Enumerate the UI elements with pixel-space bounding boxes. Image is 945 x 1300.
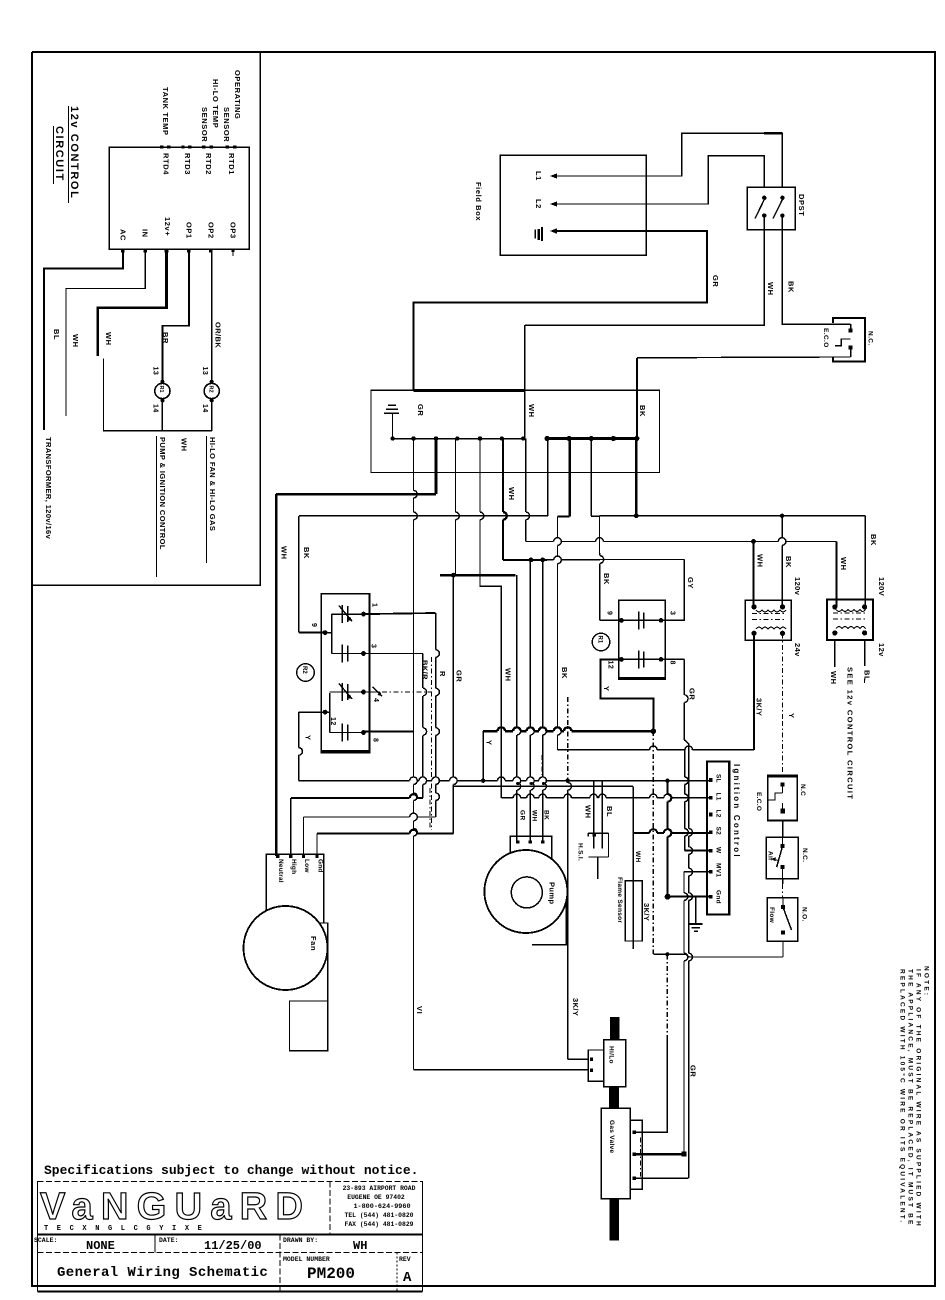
svg-text:OP2: OP2: [207, 222, 216, 239]
R1 contact 2: [621, 658, 661, 660]
svg-text:R: R: [438, 671, 447, 677]
ECO top contact: [833, 323, 851, 325]
contact 1 to pin 1: [332, 613, 364, 615]
svg-text:L2: L2: [534, 199, 543, 209]
Hi/Lo connector: [588, 1050, 603, 1081]
ground terminal in field box: [534, 230, 536, 239]
wire ECO to BK riser: [637, 356, 833, 359]
svg-text:Pump: Pump: [548, 882, 557, 904]
svg-text:8: 8: [372, 738, 379, 742]
svg-text:OR/BK: OR/BK: [214, 322, 223, 348]
Field Box enclosure: [500, 155, 646, 255]
svg-text:WH: WH: [71, 334, 80, 348]
controller IC box U1: [109, 147, 249, 249]
12v control circuit sub-box: [32, 52, 260, 585]
svg-text:Field Box: Field Box: [474, 182, 483, 221]
H.S.I. igniter: [588, 832, 608, 834]
Ignition Control box: [707, 762, 729, 915]
wire T1 24v WH to ignition W: [753, 633, 755, 750]
wire L1 into pin: [501, 797, 513, 799]
relay coil R2: [204, 383, 219, 398]
pump inner circle: [511, 877, 542, 908]
svg-text:VaNGUaRD: VaNGUaRD: [40, 1186, 303, 1228]
svg-text:BK: BK: [543, 810, 550, 820]
R1 contact 1: [621, 619, 661, 621]
svg-text:L2: L2: [715, 810, 722, 818]
svg-text:NOTE:: NOTE:: [923, 966, 930, 997]
svg-text:WH: WH: [584, 805, 593, 819]
svg-text:BK: BK: [869, 534, 878, 546]
svg-text:GY: GY: [686, 577, 695, 589]
svg-text:12v CONTROL: 12v CONTROL: [68, 106, 80, 199]
wire R1 coil to return: [161, 400, 163, 430]
pump pin wires: [529, 560, 531, 727]
contact 3 with spark output 4: [330, 691, 364, 693]
wire Gnd thick: [666, 781, 668, 794]
svg-text:14: 14: [201, 404, 208, 413]
svg-text:GR: GR: [689, 1065, 698, 1077]
R2 contact block box: [321, 594, 369, 753]
wire L1 to DPST: [556, 133, 782, 176]
svg-text:Y: Y: [485, 740, 494, 746]
svg-text:IF ANY OF THE ORIGINAL WIRE AS: IF ANY OF THE ORIGINAL WIRE AS SUPPLIED …: [915, 969, 922, 1228]
svg-text:RTD1: RTD1: [227, 153, 236, 175]
svg-text:GR: GR: [711, 275, 720, 287]
svg-text:9: 9: [310, 623, 317, 627]
wire Y bus thick: [483, 730, 497, 732]
wire 12v+ WH thick stub: [98, 249, 167, 356]
wire Air to Flow: [782, 879, 784, 884]
svg-text:WH: WH: [839, 557, 848, 571]
Flow switch: [767, 898, 798, 941]
svg-text:E.C.O: E.C.O: [755, 792, 762, 811]
gas valve connector: [630, 1120, 642, 1189]
wire fan low: [303, 817, 305, 856]
junction box: [371, 390, 660, 472]
svg-text:12v: 12v: [877, 643, 886, 657]
svg-text:Neutral: Neutral: [277, 859, 284, 883]
ground symbol below Gnd wire: [695, 897, 697, 924]
svg-text:RTD2: RTD2: [204, 153, 213, 175]
svg-text:N.C.: N.C.: [867, 331, 874, 346]
svg-text:Gnd: Gnd: [715, 890, 722, 904]
wire common 12 to Y: [299, 711, 325, 713]
svg-text:RTD4: RTD4: [162, 153, 171, 175]
svg-text:TRANSFORMER, 120v/16v: TRANSFORMER, 120v/16v: [44, 437, 53, 540]
wire pin12 down: [599, 659, 601, 680]
svg-text:WH: WH: [180, 438, 189, 452]
transformer T1 24v: [745, 600, 791, 640]
svg-text:OPERATING: OPERATING: [233, 70, 242, 119]
svg-text:L1: L1: [534, 171, 543, 181]
dashed wire near fan: [429, 788, 431, 830]
svg-text:SENSOR: SENSOR: [222, 107, 231, 142]
svg-text:REV: REV: [399, 1256, 411, 1263]
svg-text:AC: AC: [119, 229, 128, 241]
svg-text:Air: Air: [767, 851, 774, 861]
svg-text:R2: R2: [207, 386, 213, 393]
wire ground GR to junction box: [414, 231, 708, 390]
wire Y SL line to ignition: [299, 780, 410, 782]
svg-text:SEE 12v CONTROL CIRCUIT: SEE 12v CONTROL CIRCUIT: [846, 667, 855, 800]
wire BK riser to transformers: [590, 439, 592, 517]
wire Flow return to 3K/Y: [782, 941, 784, 957]
svg-text:T E C X N G L C G Y I X E: T E C X N G L C G Y I X E: [44, 1225, 204, 1233]
svg-text:8: 8: [669, 661, 676, 665]
wire BK into contact 9: [599, 553, 601, 556]
svg-text:WH: WH: [353, 1239, 367, 1253]
svg-text:WH: WH: [507, 487, 516, 501]
svg-text:Flame Sensor: Flame Sensor: [616, 877, 623, 923]
svg-text:24v: 24v: [793, 643, 802, 657]
wire ECO2 to Air: [782, 821, 784, 837]
svg-text:Fan: Fan: [309, 936, 318, 951]
wire fan high: [290, 798, 292, 856]
wire S2 from flame sensor: [634, 832, 650, 834]
svg-text:CIRCUIT: CIRCUIT: [53, 126, 65, 182]
wire WH thick to pump feeds: [502, 439, 504, 513]
svg-text:FAX (544) 481-0829: FAX (544) 481-0829: [344, 1221, 413, 1228]
svg-text:VI: VI: [415, 1006, 424, 1014]
wire 3K/Y to Hi/Lo: [567, 697, 569, 781]
svg-text:OP1: OP1: [185, 222, 194, 239]
svg-text:WH: WH: [527, 404, 536, 418]
DPST pole 2: [780, 196, 784, 200]
svg-text:BK: BK: [560, 667, 569, 679]
wire R down to fan Low: [435, 613, 437, 650]
svg-text:R1: R1: [597, 636, 603, 644]
wire WH feed line: [525, 439, 527, 513]
svg-text:WH: WH: [531, 810, 538, 822]
svg-text:DATE:: DATE:: [159, 1237, 179, 1244]
svg-text:14: 14: [152, 404, 159, 413]
svg-text:Y: Y: [602, 686, 611, 692]
svg-text:E.C.O: E.C.O: [822, 328, 829, 348]
svg-text:Y: Y: [304, 735, 313, 741]
svg-text:SL: SL: [715, 774, 722, 783]
fan motor circle: [244, 906, 328, 990]
svg-text:MV1: MV1: [715, 863, 722, 877]
svg-text:DRAWN BY:: DRAWN BY:: [283, 1237, 318, 1244]
svg-text:N.C: N.C: [799, 784, 806, 796]
svg-text:3: 3: [370, 644, 377, 648]
wire HSI BL from SL line: [601, 781, 603, 849]
wire GR riser: [455, 439, 457, 513]
DPST switch S1: [747, 187, 795, 229]
svg-text:R2: R2: [301, 666, 307, 674]
svg-text:WH: WH: [829, 671, 838, 685]
wire MV1 feed down to gas valve: [684, 871, 711, 873]
contact 4 to pin 8: [330, 732, 364, 734]
svg-text:Flow: Flow: [768, 907, 775, 924]
wire R2 coil to return: [211, 400, 213, 430]
svg-text:BR: BR: [161, 332, 170, 344]
svg-text:BK: BK: [787, 281, 796, 293]
dashed spark wire 3K/Y: [382, 691, 432, 693]
wire DPST pole1 WH down-left: [525, 216, 765, 326]
wire L2 to DPST: [556, 156, 764, 204]
svg-text:Ignition Control: Ignition Control: [732, 764, 741, 859]
wire WH thick to fan neutral: [435, 439, 438, 495]
Air switch: [766, 837, 798, 879]
wire OP2 OR/BK to relay R2 coil: [210, 249, 213, 380]
wire T1 WH primary: [752, 542, 754, 607]
spark gap mark: [373, 687, 383, 696]
wire pin8 GR down to gas valve: [661, 658, 684, 660]
Hi/Lo heater element: [604, 1040, 626, 1087]
wire T2 12v BL stub: [864, 640, 866, 666]
svg-text:13: 13: [201, 367, 208, 376]
svg-text:3K/Y: 3K/Y: [642, 903, 651, 921]
pump motor circle: [484, 850, 567, 933]
transformer T2 12v: [827, 599, 873, 640]
junction bus row right thick segment: [547, 437, 637, 440]
svg-text:S2: S2: [715, 827, 722, 836]
svg-text:12: 12: [329, 717, 336, 726]
svg-text:TANK TEMP: TANK TEMP: [161, 87, 170, 136]
ECO element: [835, 339, 851, 346]
wire R1 pin12 Y link: [600, 680, 653, 731]
svg-text:GR: GR: [519, 810, 526, 821]
svg-text:PUMP & IGNITION CONTROL: PUMP & IGNITION CONTROL: [158, 437, 167, 550]
svg-text:Specifications subject to chan: Specifications subject to change without…: [44, 1163, 418, 1178]
svg-text:Gas Valve: Gas Valve: [608, 1120, 615, 1154]
svg-text:EUGENE OE 97402: EUGENE OE 97402: [347, 1194, 405, 1201]
title block frame: [37, 1181, 39, 1292]
ECO bottom contact: [833, 356, 851, 358]
svg-text:Hi/Lo: Hi/Lo: [608, 1046, 615, 1064]
svg-text:4: 4: [372, 698, 379, 702]
svg-text:H.S.I.: H.S.I.: [577, 843, 584, 861]
svg-text:SCALE:: SCALE:: [34, 1237, 57, 1244]
svg-text:HI-LO TEMP: HI-LO TEMP: [211, 79, 220, 128]
svg-text:IN: IN: [141, 229, 150, 238]
E.C.O switch 2: [768, 775, 797, 820]
wire BK/R down to fan High: [422, 654, 424, 689]
svg-text:23-893 AIRPORT ROAD: 23-893 AIRPORT ROAD: [343, 1185, 416, 1192]
fan pins: [276, 855, 279, 858]
wire IN to transformer WH lead: [66, 249, 145, 416]
svg-text:11/25/00: 11/25/00: [204, 1239, 262, 1253]
wire BK feed line to transformer primaries: [635, 439, 637, 516]
svg-text:OP3: OP3: [229, 222, 238, 239]
svg-text:A: A: [403, 1270, 412, 1286]
svg-text:WH: WH: [104, 332, 113, 346]
wire GR to flame sensor line: [453, 785, 633, 787]
svg-text:BK: BK: [784, 556, 793, 568]
thick overlay on junction box top edge: [414, 389, 526, 392]
svg-text:WH: WH: [280, 546, 289, 560]
common bracket top pair: [331, 614, 333, 653]
svg-text:High: High: [290, 859, 297, 874]
svg-text:General Wiring Schematic: General Wiring Schematic: [57, 1265, 268, 1281]
svg-text:REPLACED WITH 105°C WIRE OR IT: REPLACED WITH 105°C WIRE OR ITS EQUIVALE…: [899, 969, 907, 1224]
svg-text:1-800-624-9960: 1-800-624-9960: [353, 1203, 410, 1211]
svg-text:THE APPLIANCE, MUST BE REPLACE: THE APPLIANCE, MUST BE REPLACED, IT MUST…: [907, 969, 914, 1227]
svg-text:MODEL NUMBER: MODEL NUMBER: [283, 1256, 330, 1263]
thick jumper bus: [440, 574, 516, 576]
svg-text:BK: BK: [302, 547, 311, 559]
svg-text:BL: BL: [605, 806, 614, 817]
pump connector box: [510, 836, 551, 902]
GY loop wire: [661, 560, 684, 621]
svg-text:BK: BK: [602, 573, 611, 585]
svg-text:SENSOR: SENSOR: [200, 107, 209, 142]
svg-text:Gnd: Gnd: [317, 859, 324, 873]
wire relay coil return: [104, 359, 213, 431]
DPST pole 1: [762, 196, 766, 200]
contact 2 to pin 3: [332, 653, 364, 655]
wire AC to transformer BL lead: [44, 249, 123, 430]
relay coil R1: [155, 383, 170, 398]
flame sensor: [625, 881, 642, 941]
svg-text:3: 3: [669, 611, 676, 615]
U1 bottom pins: [121, 249, 125, 253]
wire DPST pole2 BK to ECO: [782, 216, 833, 325]
pump pins: [516, 840, 519, 843]
wire HSI WH from SL line: [593, 781, 595, 849]
svg-text:1: 1: [371, 603, 378, 607]
svg-text:Low: Low: [303, 859, 310, 873]
svg-text:DPST: DPST: [797, 194, 806, 216]
svg-text:WH: WH: [634, 851, 641, 863]
junction bus row left segment: [393, 438, 525, 440]
gas valve body: [601, 1108, 630, 1198]
svg-text:BK/R: BK/R: [421, 660, 430, 680]
wire fan gnd: [316, 834, 318, 857]
ground symbol in junction box: [388, 404, 396, 406]
svg-text:9: 9: [606, 611, 613, 615]
wire junction to L1 of ignition control: [479, 439, 481, 513]
svg-text:N.C.: N.C.: [801, 848, 808, 862]
svg-text:PM200: PM200: [307, 1265, 355, 1283]
wire to GY loop: [547, 559, 554, 561]
E.C.O high limit switch: [833, 318, 865, 361]
ignition pins: [709, 778, 713, 782]
relay reference R2 bubble: [297, 664, 315, 682]
dashed 3K/Y from Y bus to flow return: [652, 731, 654, 954]
common bracket bottom pair: [329, 693, 331, 733]
fan connector box: [266, 854, 324, 923]
svg-text:WH: WH: [756, 554, 765, 568]
svg-text:WH: WH: [766, 282, 775, 296]
svg-text:Y: Y: [787, 713, 796, 719]
svg-text:BL: BL: [52, 329, 61, 340]
short dash-dot fragment: [541, 755, 543, 775]
svg-text:BK: BK: [638, 405, 647, 417]
wire VI from junction down to Hi/Lo: [413, 732, 415, 777]
wire T2 WH primary: [835, 542, 837, 607]
wire T2 12v WH stub: [834, 640, 836, 667]
sensor pin pairs on top edge of U1: [160, 145, 163, 148]
svg-text:TEL (544) 481-0820: TEL (544) 481-0820: [344, 1212, 413, 1219]
svg-text:3K/Y: 3K/Y: [755, 698, 764, 716]
svg-text:120V: 120V: [877, 577, 886, 596]
dashed 24v Y to ECO2: [782, 633, 784, 721]
svg-text:NONE: NONE: [86, 1239, 115, 1253]
svg-text:GR: GR: [416, 404, 425, 416]
wire jog from thick riser: [568, 439, 570, 517]
wire common 9 into box: [299, 632, 325, 634]
R1 contact block box: [619, 600, 666, 679]
svg-text:WH: WH: [504, 668, 513, 682]
svg-text:3K/Y: 3K/Y: [571, 998, 580, 1016]
svg-text:W: W: [715, 847, 722, 854]
wire valve pin1 to flow return: [634, 1040, 667, 1132]
svg-text:L1: L1: [715, 793, 722, 801]
svg-text:RTD3: RTD3: [183, 153, 192, 175]
wire T1 BK primary: [781, 516, 783, 538]
svg-text:GR: GR: [455, 670, 464, 682]
svg-text:N.O.: N.O.: [801, 907, 808, 922]
wire BK to R2 contact common 9: [547, 439, 549, 516]
svg-text:12v+: 12v+: [163, 217, 172, 236]
svg-text:120v: 120v: [793, 577, 802, 596]
pin OP3 stub: [232, 249, 234, 256]
svg-text:13: 13: [152, 367, 159, 376]
svg-text:R1: R1: [158, 386, 164, 393]
wire pump GR riser: [516, 575, 518, 727]
wire valve pin2 MV thick: [634, 1153, 684, 1155]
wire OP1 BR to relay R1 coil: [162, 249, 189, 380]
svg-text:BL: BL: [863, 670, 872, 681]
svg-text:GR: GR: [688, 688, 697, 700]
wire GR vertical below junction row: [413, 439, 415, 491]
svg-text:HI-LO FAN & HI-LO GAS: HI-LO FAN & HI-LO GAS: [208, 437, 217, 531]
relay reference R1 bubble: [592, 633, 610, 651]
svg-text:12: 12: [607, 661, 614, 670]
wire T2 BK primary: [864, 516, 866, 607]
